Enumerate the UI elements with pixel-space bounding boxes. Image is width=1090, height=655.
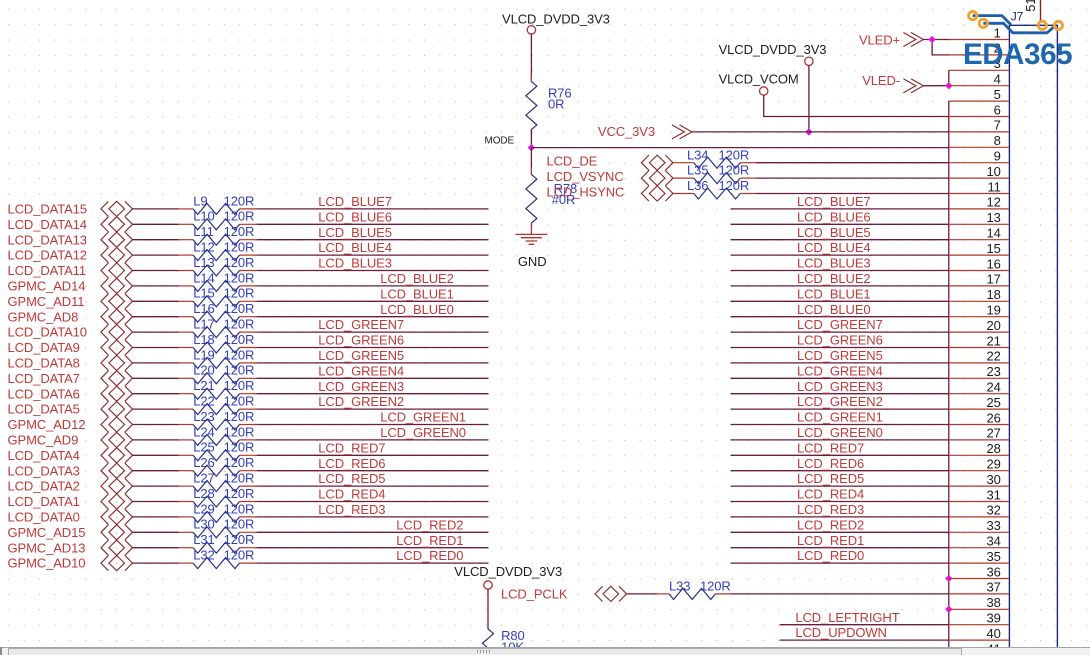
svg-text:28: 28	[987, 441, 1001, 456]
svg-text:LCD_GREEN5: LCD_GREEN5	[318, 348, 404, 363]
svg-text:LCD_GREEN2: LCD_GREEN2	[797, 394, 883, 409]
svg-text:LCD_BLUE5: LCD_BLUE5	[797, 225, 871, 240]
svg-text:LCD_GREEN6: LCD_GREEN6	[797, 333, 883, 348]
port LCD_DE	[547, 154, 674, 171]
wire GPMC_AD15 to L30	[133, 531, 194, 533]
wire L19 to net LCD_GREEN5	[240, 362, 489, 364]
svg-text:0R: 0R	[548, 97, 564, 112]
svg-text:LCD_RED6: LCD_RED6	[797, 456, 864, 471]
svg-text:LCD_DATA1: LCD_DATA1	[8, 494, 80, 509]
wire L23 to net LCD_GREEN1	[240, 424, 489, 426]
svg-text:12: 12	[987, 195, 1001, 210]
wire L9 to net LCD_BLUE7	[240, 208, 489, 210]
svg-text:LCD_BLUE0: LCD_BLUE0	[797, 302, 871, 317]
wire LCD_BLUE0 to pin 19	[731, 316, 949, 318]
power port VLCD_DVDD_3V3 (top center)	[502, 12, 610, 35]
port LCD_DATA11	[8, 263, 133, 278]
svg-text:17: 17	[987, 272, 1001, 287]
svg-text:LCD_BLUE1: LCD_BLUE1	[380, 286, 454, 301]
wire L34 to pin 9	[740, 162, 949, 164]
wire LCD_GREEN0 to pin 27	[731, 439, 949, 441]
wire L28 to net LCD_RED4	[240, 501, 489, 503]
power port VLCD_DVDD_3V3 (upper right)	[719, 42, 827, 66]
svg-text:7: 7	[994, 118, 1001, 133]
wire VLCD_VCOM elbow to pin 6	[764, 95, 949, 117]
wire L29 to net LCD_RED3	[240, 516, 489, 518]
wire LCD_DATA0 to L29	[133, 516, 194, 518]
svg-text:37: 37	[987, 580, 1001, 595]
node VLED- junction	[945, 82, 952, 89]
node junction pin 36	[945, 575, 952, 582]
svg-text:18: 18	[987, 287, 1001, 302]
svg-text:LCD_DATA12: LCD_DATA12	[8, 248, 87, 263]
port LCD_DATA6	[8, 386, 133, 401]
svg-text:LCD_DATA11: LCD_DATA11	[8, 263, 86, 278]
svg-text:LCD_DATA10: LCD_DATA10	[8, 325, 87, 340]
node junction pin 38	[945, 606, 952, 613]
wire LCD_BLUE2 to pin 17	[731, 285, 949, 287]
pin 1 lead	[949, 39, 1010, 41]
inductor L23 120R	[193, 409, 254, 430]
pin 34 lead	[949, 547, 1010, 549]
pin 26 lead	[949, 424, 1010, 426]
wire LCD_DATA6 to L21	[133, 393, 194, 395]
power port VLCD_DVDD_3V3 (bottom)	[454, 564, 562, 589]
inductor L35 120R	[687, 163, 749, 184]
svg-text:LCD_BLUE1: LCD_BLUE1	[797, 286, 871, 301]
inductor L15 120R	[193, 286, 254, 307]
svg-text:LCD_PCLK: LCD_PCLK	[501, 586, 568, 601]
wire GPMC_AD11 to L15	[133, 300, 194, 302]
svg-text:LCD_BLUE3: LCD_BLUE3	[318, 256, 392, 271]
inductor L10 120R	[193, 209, 254, 230]
pin 24 lead	[949, 393, 1010, 395]
svg-text:LCD_DATA3: LCD_DATA3	[8, 463, 80, 478]
wire L27 to net LCD_RED5	[240, 485, 489, 487]
wire LCD_DATA3 to L26	[133, 470, 194, 472]
wire LCD_BLUE4 to pin 15	[731, 254, 949, 256]
wire LCD_GREEN7 to pin 20	[731, 331, 949, 333]
wire LCD_RED3 to pin 32	[731, 516, 949, 518]
svg-text:10: 10	[987, 164, 1001, 179]
svg-text:J7: J7	[1011, 10, 1024, 24]
svg-text:25: 25	[987, 395, 1001, 410]
svg-text:LCD_DATA5: LCD_DATA5	[8, 402, 80, 417]
svg-text:4: 4	[994, 72, 1001, 87]
svg-text:120R: 120R	[719, 147, 750, 162]
wire LCD_VSYNC to L35	[673, 177, 694, 179]
svg-text:LCD_DATA6: LCD_DATA6	[8, 386, 80, 401]
wire LCD_DATA4 to L25	[133, 454, 194, 456]
svg-text:120R: 120R	[719, 163, 750, 178]
wire LCD_RED6 to pin 29	[731, 470, 949, 472]
svg-text:35: 35	[987, 549, 1001, 564]
inductor L36 120R	[687, 178, 749, 199]
svg-text:9: 9	[994, 149, 1001, 164]
inductor L24 120R	[193, 424, 254, 445]
svg-text:LCD_DATA0: LCD_DATA0	[8, 510, 80, 525]
pin 40 lead	[949, 639, 1010, 641]
wire R78 to ground	[530, 223, 532, 234]
wire LCD_DATA2 to L27	[133, 485, 194, 487]
wire VLED+ to pins 1,2	[923, 40, 948, 55]
resistor R78 #0R	[526, 175, 577, 224]
pin 3 lead	[949, 69, 1010, 71]
svg-text:VLCD_VCOM: VLCD_VCOM	[719, 72, 799, 87]
wire GPMC_AD13 to L31	[133, 547, 194, 549]
inductor L26 120R	[193, 455, 254, 476]
wire LCD_UPDOWN to pin 40	[780, 639, 949, 641]
inductor L11 120R	[193, 224, 254, 245]
svg-text:40: 40	[987, 626, 1001, 641]
port LCD_PCLK	[501, 586, 627, 601]
wire LCD_PCLK to L33	[627, 593, 669, 595]
EDA365 watermark pads	[969, 12, 977, 20]
svg-text:VLED+: VLED+	[859, 32, 900, 47]
inductor L32 120R	[193, 548, 254, 569]
svg-text:20: 20	[987, 318, 1001, 333]
svg-text:LCD_BLUE6: LCD_BLUE6	[318, 209, 392, 224]
inductor L34 120R	[687, 147, 749, 168]
port LCD_DATA7	[8, 371, 133, 386]
svg-text:LCD_GREEN7: LCD_GREEN7	[318, 317, 404, 332]
wire MODE to pin 8	[531, 147, 948, 149]
wire R76 pin stubs	[530, 75, 532, 82]
port LCD_HSYNC	[547, 185, 674, 202]
ground	[515, 234, 547, 269]
wire R76 to MODE junction	[530, 130, 532, 148]
wire VLCD_DVDD_3V3 down to VCC_3V3 net	[808, 65, 810, 132]
svg-text:14: 14	[987, 226, 1001, 241]
inductor L21 120R	[193, 378, 254, 399]
svg-text:LCD_BLUE3: LCD_BLUE3	[797, 256, 871, 271]
inductor L25 120R	[193, 440, 254, 461]
pin 33 lead	[949, 531, 1010, 533]
port LCD_DATA3	[8, 463, 133, 478]
pin 4 lead	[949, 85, 1010, 87]
svg-text:39: 39	[987, 611, 1001, 626]
pin 2 lead	[949, 54, 1010, 56]
wire L31 to net LCD_RED1	[240, 547, 489, 549]
svg-text:LCD_BLUE4: LCD_BLUE4	[318, 240, 392, 255]
wire L22 to net LCD_GREEN2	[240, 408, 489, 410]
wire vertical GND bus at connector	[948, 101, 950, 655]
wire LCD_DE to L34	[673, 162, 694, 164]
svg-text:GPMC_AD14: GPMC_AD14	[8, 279, 86, 294]
svg-text:LCD_RED7: LCD_RED7	[797, 440, 864, 455]
svg-text:LCD_GREEN2: LCD_GREEN2	[318, 394, 404, 409]
inductor L17 120R	[193, 317, 254, 338]
inductor L29 120R	[193, 501, 254, 522]
svg-text:LCD_VSYNC: LCD_VSYNC	[547, 169, 624, 184]
wire L15 to net LCD_BLUE1	[240, 300, 489, 302]
port LCD_DATA5	[8, 402, 133, 417]
svg-text:LCD_BLUE7: LCD_BLUE7	[318, 194, 392, 209]
port LCD_DATA10	[8, 325, 133, 340]
pin 37 lead	[949, 593, 1010, 595]
wire junction to R78	[530, 148, 532, 175]
svg-text:GND: GND	[518, 254, 547, 269]
inductor L18 120R	[193, 332, 254, 353]
pin 38 lead	[949, 608, 1010, 610]
wire L33 to pin 37	[715, 593, 948, 595]
svg-text:6: 6	[994, 102, 1001, 117]
port GPMC_AD9	[8, 432, 133, 447]
svg-text:LCD_DE: LCD_DE	[547, 154, 598, 169]
wire LCD_DATA9 to L18	[133, 347, 194, 349]
wire LCD_GREEN4 to pin 23	[731, 377, 949, 379]
svg-text:LCD_GREEN0: LCD_GREEN0	[797, 425, 883, 440]
svg-text:11: 11	[988, 179, 1001, 194]
pin 14 lead	[949, 239, 1010, 241]
port GPMC_AD8	[8, 309, 133, 324]
svg-text:LCD_RED0: LCD_RED0	[797, 548, 864, 563]
svg-text:LCD_RED4: LCD_RED4	[318, 487, 385, 502]
svg-text:13: 13	[987, 210, 1001, 225]
scrollbar horizontal	[0, 647, 1090, 655]
pin 29 lead	[949, 470, 1010, 472]
resistor R80 10K	[483, 628, 525, 655]
inductor L28 120R	[193, 486, 254, 507]
wire LCD_RED5 to pin 30	[731, 485, 949, 487]
svg-text:LCD_BLUE7: LCD_BLUE7	[797, 194, 871, 209]
svg-text:LCD_GREEN6: LCD_GREEN6	[318, 333, 404, 348]
svg-text:LCD_RED4: LCD_RED4	[797, 487, 864, 502]
wire LCD_DATA7 to L20	[133, 377, 194, 379]
pin 12 lead	[949, 208, 1010, 210]
svg-text:LCD_GREEN4: LCD_GREEN4	[318, 363, 404, 378]
port VLED+	[859, 32, 923, 47]
svg-text:21: 21	[987, 333, 1001, 348]
wire GPMC_AD8 to L16	[133, 316, 194, 318]
inductor L31 120R	[193, 532, 254, 553]
wire LCD_DATA13 to L11	[133, 239, 194, 241]
svg-text:LCD_RED5: LCD_RED5	[797, 471, 864, 486]
wire L36 to pin 11	[740, 193, 949, 195]
wire L12 to net LCD_BLUE4	[240, 254, 489, 256]
wire LCD_BLUE3 to pin 16	[731, 270, 949, 272]
svg-text:GPMC_AD12: GPMC_AD12	[8, 417, 86, 432]
pin 15 lead	[949, 254, 1010, 256]
inductor L16 120R	[193, 301, 254, 322]
pin 30 lead	[949, 485, 1010, 487]
wire LCD_RED7 to pin 28	[731, 454, 949, 456]
port LCD_DATA4	[8, 448, 133, 463]
svg-text:LCD_DATA9: LCD_DATA9	[8, 340, 80, 355]
port GPMC_AD15	[8, 525, 133, 540]
svg-text:33: 33	[987, 518, 1001, 533]
pin 20 lead	[949, 331, 1010, 333]
svg-text:510: 510	[1023, 0, 1038, 12]
wire GPMC_AD10 to L32	[133, 562, 194, 564]
pin 21 lead	[949, 347, 1010, 349]
wire GPMC_AD9 to L24	[133, 439, 194, 441]
svg-text:LCD_BLUE2: LCD_BLUE2	[797, 271, 871, 286]
wire LCD_BLUE5 to pin 14	[731, 239, 949, 241]
power port VLCD_VCOM	[719, 72, 799, 96]
port LCD_DATA13	[8, 232, 133, 247]
wire L13 to net LCD_BLUE3	[240, 270, 489, 272]
pin 8 lead	[949, 146, 1010, 148]
wire L18 to net LCD_GREEN6	[240, 347, 489, 349]
wire GPMC_AD14 to L14	[133, 285, 194, 287]
svg-text:120R: 120R	[700, 578, 731, 593]
port LCD_VSYNC	[547, 169, 674, 186]
port LCD_DATA1	[8, 494, 133, 509]
wire L24 to net LCD_GREEN0	[240, 439, 489, 441]
svg-text:L11: L11	[193, 224, 213, 239]
inductor L33 120R	[669, 578, 731, 599]
wire L30 to net LCD_RED2	[240, 531, 489, 533]
wire L26 to net LCD_RED6	[240, 470, 489, 472]
svg-text:LCD_HSYNC: LCD_HSYNC	[547, 185, 625, 200]
svg-text:15: 15	[987, 241, 1001, 256]
svg-text:29: 29	[987, 457, 1001, 472]
port VCC_3V3	[598, 124, 692, 139]
wire LCD_RED2 to pin 33	[731, 531, 949, 533]
svg-text:38: 38	[987, 595, 1001, 610]
port LCD_DATA0	[8, 509, 133, 524]
svg-text:LCD_RED1: LCD_RED1	[396, 533, 463, 548]
pin 23 lead	[949, 377, 1010, 379]
svg-text:LCD_DATA8: LCD_DATA8	[8, 356, 80, 371]
wire L25 to net LCD_RED7	[240, 454, 489, 456]
port LCD_DATA14	[8, 217, 133, 232]
svg-text:LCD_DATA14: LCD_DATA14	[8, 217, 87, 232]
pin 19 lead	[949, 316, 1010, 318]
port LCD_DATA12	[8, 248, 133, 263]
port LCD_DATA8	[8, 355, 133, 370]
wire LCD_BLUE6 to pin 13	[731, 223, 949, 225]
svg-text:34: 34	[987, 534, 1001, 549]
pin 25 lead	[949, 408, 1010, 410]
port GPMC_AD11	[8, 294, 133, 309]
inductor L13 120R	[193, 255, 254, 276]
svg-text:LCD_RED6: LCD_RED6	[318, 456, 385, 471]
svg-text:LCD_GREEN1: LCD_GREEN1	[797, 410, 883, 425]
svg-text:LCD_BLUE6: LCD_BLUE6	[797, 209, 871, 224]
pin 31 lead	[949, 501, 1010, 503]
svg-text:32: 32	[987, 503, 1001, 518]
pin 18 lead	[949, 300, 1010, 302]
svg-text:VLCD_DVDD_3V3: VLCD_DVDD_3V3	[454, 564, 562, 579]
svg-text:LCD_RED2: LCD_RED2	[797, 517, 864, 532]
node VLED+ junction	[928, 36, 935, 43]
wire L10 to net LCD_BLUE6	[240, 223, 489, 225]
wire LCD_GREEN5 to pin 22	[731, 362, 949, 364]
wire LCD_DATA8 to L19	[133, 362, 194, 364]
pin 13 lead	[949, 223, 1010, 225]
inductor L20 120R	[193, 363, 254, 384]
svg-text:VLCD_DVDD_3V3: VLCD_DVDD_3V3	[719, 42, 827, 57]
wire LCD_RED1 to pin 34	[731, 547, 949, 549]
wire L14 to net LCD_BLUE2	[240, 285, 489, 287]
svg-text:LCD_GREEN1: LCD_GREEN1	[380, 410, 466, 425]
wire LCD_LEFTRIGHT to pin 39	[780, 624, 949, 626]
wire VLCD_DVDD_3V3 to R80	[487, 589, 489, 629]
wire LCD_DATA1 to L28	[133, 501, 194, 503]
svg-text:LCD_DATA13: LCD_DATA13	[8, 232, 87, 247]
port GPMC_AD12	[8, 417, 133, 432]
svg-text:GPMC_AD15: GPMC_AD15	[8, 525, 86, 540]
wire VLCD_DVDD_3V3 to R76	[530, 34, 532, 82]
wire L16 to net LCD_BLUE0	[240, 316, 489, 318]
svg-text:EDA365: EDA365	[963, 38, 1072, 71]
wire VCC_3V3 to pin 7	[692, 131, 949, 133]
wire L17 to net LCD_GREEN7	[240, 331, 489, 333]
node MODE junction	[528, 144, 535, 151]
svg-text:27: 27	[987, 426, 1001, 441]
svg-text:MODE: MODE	[485, 135, 515, 146]
wire LCD_DATA12 to L12	[133, 254, 194, 256]
wire L20 to net LCD_GREEN4	[240, 377, 489, 379]
svg-text:LCD_GREEN7: LCD_GREEN7	[797, 317, 883, 332]
svg-text:5: 5	[994, 87, 1001, 102]
wire LCD_DATA5 to L22	[133, 408, 194, 410]
wire L32 to net LCD_RED0	[240, 562, 489, 564]
svg-text:8: 8	[994, 133, 1001, 148]
svg-text:LCD_RED3: LCD_RED3	[797, 502, 864, 517]
inductor L27 120R	[193, 471, 254, 492]
wire LCD_HSYNC to L36	[673, 193, 694, 195]
port GPMC_AD10	[8, 556, 133, 571]
pin 7 lead	[949, 131, 1010, 133]
svg-text:LCD_RED7: LCD_RED7	[318, 440, 385, 455]
inductor L30 120R	[193, 517, 254, 538]
svg-text:LCD_BLUE4: LCD_BLUE4	[797, 240, 871, 255]
svg-text:LCD_RED0: LCD_RED0	[396, 548, 463, 563]
svg-text:LCD_DATA15: LCD_DATA15	[8, 202, 87, 217]
svg-text:LCD_GREEN4: LCD_GREEN4	[797, 363, 883, 378]
svg-text:LCD_RED5: LCD_RED5	[318, 471, 385, 486]
EDA365 watermark traces	[973, 16, 1055, 33]
wire LCD_RED4 to pin 31	[731, 501, 949, 503]
svg-text:VLCD_DVDD_3V3: VLCD_DVDD_3V3	[502, 12, 610, 27]
svg-text:GPMC_AD11: GPMC_AD11	[8, 294, 85, 309]
wire LCD_GREEN6 to pin 21	[731, 347, 949, 349]
wire LCD_GREEN1 to pin 26	[731, 424, 949, 426]
pin 39 lead	[949, 624, 1010, 626]
wire LCD_DATA15 to L9	[133, 208, 194, 210]
svg-text:22: 22	[987, 349, 1001, 364]
wire LCD_DATA14 to L10	[133, 223, 194, 225]
wire LCD_GREEN3 to pin 24	[731, 393, 949, 395]
wire VLED- to pins 3,4	[923, 70, 948, 85]
wire resistor 510 (cut off at top)	[1040, 0, 1042, 23]
svg-text:30: 30	[987, 472, 1001, 487]
svg-text:31: 31	[987, 487, 1001, 502]
port VLED-	[862, 73, 923, 93]
svg-text:LCD_DATA7: LCD_DATA7	[8, 371, 80, 386]
svg-text:L33: L33	[669, 578, 690, 593]
svg-text:LCD_RED1: LCD_RED1	[797, 533, 864, 548]
svg-text:GPMC_AD10: GPMC_AD10	[8, 556, 86, 571]
svg-text:LCD_DATA4: LCD_DATA4	[8, 448, 80, 463]
pin 27 lead	[949, 439, 1010, 441]
pin 10 lead	[949, 177, 1010, 179]
svg-text:24: 24	[987, 380, 1001, 395]
connector J7 box	[1009, 25, 1057, 655]
wire LCD_BLUE7 to pin 12	[731, 208, 949, 210]
svg-text:VCC_3V3: VCC_3V3	[598, 124, 655, 139]
pin 28 lead	[949, 454, 1010, 456]
pin 32 lead	[949, 516, 1010, 518]
pin 16 lead	[949, 270, 1010, 272]
svg-text:26: 26	[987, 410, 1001, 425]
wire GPMC_AD12 to L23	[133, 424, 194, 426]
pin 9 lead	[949, 162, 1010, 164]
svg-text:LCD_BLUE5: LCD_BLUE5	[318, 225, 392, 240]
